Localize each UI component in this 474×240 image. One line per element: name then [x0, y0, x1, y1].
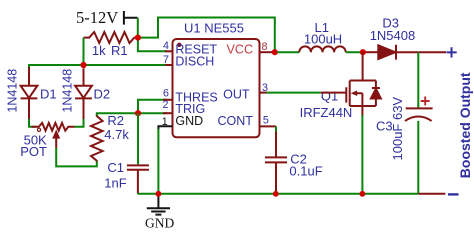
svg-text:4.7k: 4.7k	[104, 127, 129, 142]
inductor L1	[299, 46, 345, 52]
svg-text:VCC: VCC	[227, 42, 254, 56]
pot wiper arrow	[54, 132, 59, 149]
wire (R1 left drop to DISCH)	[83, 38, 85, 65]
wire (node A to RESET pin 4)	[138, 38, 167, 52]
svg-text:C1: C1	[107, 160, 124, 175]
svg-text:1N5408: 1N5408	[370, 28, 416, 43]
pin 1 stub (GND)	[158, 126, 172, 130]
Q1 gate lead	[321, 92, 347, 94]
pin 2 stub	[163, 112, 173, 114]
wire (DISCH rail)	[29, 65, 167, 68]
svg-text:GND: GND	[175, 114, 203, 128]
power terminal 5-12V	[124, 11, 138, 25]
svg-text:GND: GND	[145, 216, 174, 231]
svg-text:4: 4	[163, 40, 169, 52]
wire (node to L1)	[277, 51, 299, 53]
svg-text:1: 1	[162, 116, 168, 128]
pin 6 stub	[163, 99, 173, 101]
resistor R1	[84, 32, 138, 43]
svg-text:D2: D2	[94, 87, 111, 102]
transistor Q1 (IRFZ44N MOSFET)	[346, 52, 380, 116]
wire (D1 to pot left)	[29, 119, 37, 127]
wire (C3 to ground rail)	[417, 121, 419, 194]
svg-text:6: 6	[163, 88, 169, 100]
op-amp U1 NE555 IC body	[173, 39, 260, 137]
svg-text:U1 NE555: U1 NE555	[184, 21, 244, 36]
diode D2	[75, 68, 92, 121]
svg-text:R1: R1	[111, 43, 128, 58]
svg-text:7: 7	[163, 54, 169, 66]
pin 5 stub	[260, 125, 277, 127]
svg-text:5: 5	[263, 115, 269, 127]
wire (D2 to pot right)	[75, 119, 84, 127]
wire (THRES link)	[138, 100, 167, 113]
IC pin1 marker dot	[177, 43, 181, 47]
wire (VCC rail over IC)	[138, 18, 275, 53]
ground symbol	[147, 194, 170, 215]
svg-text:D1: D1	[40, 87, 57, 102]
wire (L1 to node B)	[346, 51, 363, 53]
svg-text:DISCH: DISCH	[175, 54, 214, 68]
wire (wiper to R2 bottom)	[56, 148, 97, 166]
resistor R2	[91, 115, 103, 162]
svg-text:100uH: 100uH	[304, 31, 342, 46]
output - terminal	[448, 193, 459, 195]
potentiometer 50K POT	[32, 123, 75, 131]
node B (L1/D3/Q1 drain)	[360, 49, 366, 55]
output + terminal	[446, 47, 456, 57]
svg-text:POT: POT	[20, 144, 47, 159]
Q1 arrow head	[351, 90, 357, 96]
junction (C2 gnd)	[273, 191, 279, 197]
svg-text:5-12V: 5-12V	[76, 8, 118, 27]
wire (pin1 to ground rail)	[157, 129, 159, 194]
svg-text:Q1: Q1	[321, 89, 338, 104]
junction (gnd symbol)	[156, 191, 162, 197]
svg-text:0.1uF: 0.1uF	[289, 163, 322, 178]
svg-text:CONT: CONT	[218, 114, 254, 128]
wire (OUT pin 3 to gate)	[267, 92, 321, 94]
pin 8 stub	[260, 51, 273, 53]
svg-text:1N4148: 1N4148	[5, 69, 19, 113]
diode D3	[378, 45, 446, 60]
svg-text:R2: R2	[107, 113, 124, 128]
wire (node B to D3)	[366, 51, 379, 53]
junction (Q1 source gnd)	[360, 191, 366, 197]
wire (Q1 source to ground rail)	[361, 115, 363, 194]
C3 plus mark	[421, 97, 430, 106]
svg-text:IRFZ44N: IRFZ44N	[300, 105, 353, 120]
pot circle marker	[37, 128, 40, 131]
svg-text:100uF 63V: 100uF 63V	[390, 97, 405, 161]
pin 7 stub	[165, 64, 173, 66]
wire (TRIG rail to R2 top)	[97, 113, 167, 115]
node A	[135, 35, 141, 41]
svg-text:Boosted Output: Boosted Output	[457, 72, 473, 178]
junction (VCC node pin 8)	[272, 49, 278, 55]
svg-text:1N4148: 1N4148	[61, 69, 75, 113]
diode D1	[21, 67, 38, 121]
capacitor C3 (electrolytic)	[405, 108, 433, 121]
svg-text:8: 8	[262, 41, 268, 53]
junction (DISCH / R1 / D1 / D2)	[80, 62, 86, 68]
ground rail	[138, 193, 419, 195]
svg-text:1nF: 1nF	[104, 175, 126, 190]
junction (TRIG/THRES/C1)	[135, 110, 141, 116]
wire (C3 tap)	[417, 52, 419, 108]
capacitor C2	[275, 126, 277, 131]
wire (terminal drop to node A)	[137, 18, 139, 38]
ground rail red segment to - output	[418, 193, 445, 195]
pin 3 stub	[260, 92, 267, 94]
capacitor C1	[137, 113, 139, 164]
svg-text:1k: 1k	[92, 43, 106, 58]
svg-text:2: 2	[163, 99, 169, 111]
svg-text:OUT: OUT	[223, 87, 250, 101]
pin 4 stub	[165, 50, 173, 52]
Q1 body diode fill	[371, 89, 381, 99]
